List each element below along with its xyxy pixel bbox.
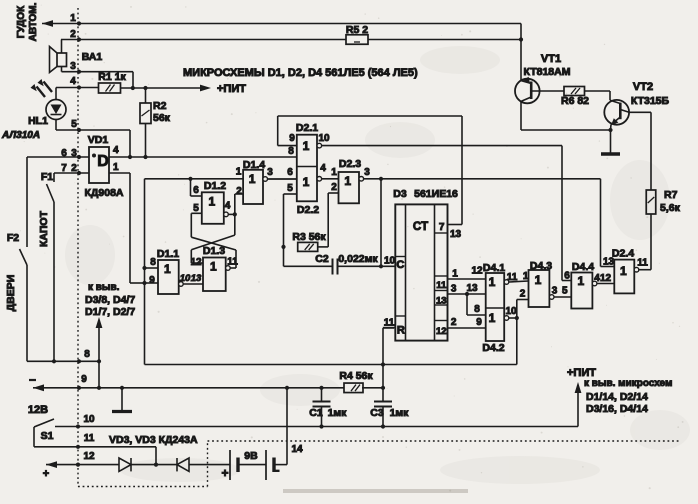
svg-text:4: 4 — [320, 163, 326, 174]
svg-text:561ИЕ16: 561ИЕ16 — [414, 188, 458, 200]
svg-text:R7: R7 — [664, 189, 678, 201]
svg-text:2: 2 — [70, 29, 76, 40]
svg-text:11: 11 — [384, 318, 395, 329]
svg-text:1: 1 — [164, 262, 171, 276]
svg-text:9В: 9В — [244, 450, 258, 462]
svg-text:9: 9 — [476, 317, 482, 328]
svg-text:3: 3 — [267, 167, 273, 178]
svg-text:ВА1: ВА1 — [82, 51, 103, 63]
svg-text:C3: C3 — [370, 407, 384, 419]
svg-text:D: D — [97, 153, 109, 170]
svg-text:+: + — [43, 468, 49, 480]
svg-text:ДВЕРИ: ДВЕРИ — [5, 275, 17, 312]
svg-text:3: 3 — [364, 167, 370, 178]
svg-text:10: 10 — [318, 133, 330, 144]
svg-text:3: 3 — [70, 61, 76, 72]
svg-text:HL1: HL1 — [28, 115, 48, 127]
svg-text:D1.4: D1.4 — [243, 159, 265, 171]
svg-text:8: 8 — [474, 304, 480, 315]
svg-text:12: 12 — [436, 326, 447, 337]
svg-text:D1.3: D1.3 — [203, 245, 225, 257]
svg-text:6: 6 — [287, 167, 293, 178]
svg-text:1: 1 — [210, 260, 217, 274]
svg-text:0,022мк: 0,022мк — [338, 253, 378, 265]
svg-text:+: + — [221, 466, 228, 480]
svg-text:1: 1 — [208, 194, 215, 208]
svg-text:1: 1 — [331, 167, 337, 178]
svg-text:10: 10 — [180, 273, 191, 284]
svg-text:1: 1 — [249, 172, 256, 186]
svg-text:VD3, VD3 КД243А: VD3, VD3 КД243А — [109, 434, 198, 446]
svg-text:1: 1 — [620, 264, 627, 278]
svg-text:МИКРОСХЕМЫ D1, D2, D4 561ЛЕ5 (: МИКРОСХЕМЫ D1, D2, D4 561ЛЕ5 (564 ЛЕ5) — [183, 67, 418, 79]
svg-text:2: 2 — [331, 182, 337, 193]
svg-text:VT2: VT2 — [633, 81, 653, 93]
svg-text:-: - — [276, 463, 280, 477]
svg-text:R4 56к: R4 56к — [339, 370, 373, 382]
svg-text:13: 13 — [603, 257, 615, 268]
svg-text:5: 5 — [287, 183, 293, 194]
svg-text:13: 13 — [450, 229, 462, 240]
svg-text:R3 56к: R3 56к — [292, 231, 326, 243]
svg-text:КТ818АМ: КТ818АМ — [524, 66, 571, 78]
svg-text:к выв.: к выв. — [88, 282, 120, 293]
svg-text:4: 4 — [225, 201, 231, 212]
svg-text:11: 11 — [637, 258, 648, 269]
svg-text:1: 1 — [236, 167, 242, 178]
svg-text:D3: D3 — [393, 188, 407, 200]
svg-text:7: 7 — [61, 163, 67, 174]
svg-text:CT: CT — [413, 221, 428, 233]
svg-text:7: 7 — [439, 222, 445, 233]
svg-text:3: 3 — [71, 148, 77, 159]
svg-text:D2.4: D2.4 — [612, 248, 634, 260]
svg-text:6: 6 — [193, 185, 199, 196]
svg-text:1: 1 — [523, 271, 529, 282]
svg-text:1: 1 — [303, 175, 310, 189]
svg-text:2: 2 — [451, 317, 457, 328]
svg-text:D1.2: D1.2 — [204, 180, 226, 192]
svg-text:R2: R2 — [153, 100, 167, 112]
svg-text:АЛ310А: АЛ310А — [1, 130, 40, 141]
svg-text:5: 5 — [562, 286, 568, 297]
svg-text:VT1: VT1 — [541, 53, 561, 65]
svg-text:D2.2: D2.2 — [297, 204, 319, 216]
svg-text:D4.4: D4.4 — [572, 261, 594, 273]
svg-text:6: 6 — [61, 148, 67, 159]
svg-text:D3/8, D4/7: D3/8, D4/7 — [85, 294, 135, 306]
svg-text:КТ315Б: КТ315Б — [631, 95, 670, 107]
svg-text:4: 4 — [113, 145, 119, 156]
svg-text:3: 3 — [451, 284, 457, 295]
svg-text:VD1: VD1 — [88, 134, 109, 146]
svg-text:F1: F1 — [41, 171, 53, 183]
svg-text:КАПОТ: КАПОТ — [38, 210, 50, 247]
svg-text:3: 3 — [552, 286, 558, 297]
svg-text:D1.1: D1.1 — [157, 248, 179, 260]
svg-text:13: 13 — [436, 296, 447, 307]
svg-text:R5 2: R5 2 — [346, 24, 368, 36]
svg-text:C: C — [396, 259, 404, 271]
svg-text:D4.2: D4.2 — [482, 342, 504, 354]
svg-text:13: 13 — [191, 273, 202, 284]
svg-text:11: 11 — [84, 433, 95, 444]
svg-text:12: 12 — [190, 257, 202, 268]
svg-text:1: 1 — [489, 275, 496, 289]
svg-text:8: 8 — [150, 257, 156, 268]
svg-text:12В: 12В — [28, 404, 48, 416]
svg-text:R: R — [397, 325, 405, 337]
svg-text:D1/14, D2/14: D1/14, D2/14 — [586, 391, 648, 403]
svg-text:D2.1: D2.1 — [296, 122, 318, 134]
svg-text:C1: C1 — [309, 407, 323, 419]
svg-text:2: 2 — [236, 186, 242, 197]
svg-text:1: 1 — [344, 174, 351, 188]
svg-text:9: 9 — [289, 133, 295, 144]
svg-text:+ПИТ: +ПИТ — [217, 83, 246, 95]
svg-text:D4.1: D4.1 — [483, 262, 505, 274]
svg-text:1: 1 — [70, 13, 76, 24]
svg-text:12: 12 — [600, 273, 612, 284]
svg-text:9: 9 — [149, 275, 155, 286]
svg-text:C2: C2 — [315, 253, 329, 265]
svg-text:5: 5 — [193, 203, 199, 214]
svg-text:1мк: 1мк — [328, 407, 348, 419]
svg-text:D2.3: D2.3 — [339, 158, 361, 170]
svg-text:10: 10 — [83, 414, 95, 425]
svg-text:1: 1 — [578, 274, 585, 288]
svg-text:11: 11 — [436, 280, 447, 291]
svg-text:1: 1 — [113, 162, 119, 173]
svg-text:1: 1 — [489, 311, 496, 325]
svg-text:2: 2 — [71, 163, 77, 174]
svg-text:1мк: 1мк — [390, 407, 410, 419]
svg-text:R1 1к: R1 1к — [98, 71, 126, 83]
svg-text:D4.3: D4.3 — [530, 260, 552, 272]
svg-text:5: 5 — [71, 119, 77, 130]
svg-text:ГУДОК: ГУДОК — [16, 5, 27, 38]
svg-text:к выв. микросхем: к выв. микросхем — [584, 378, 672, 389]
svg-text:10: 10 — [384, 256, 396, 267]
svg-text:1: 1 — [452, 269, 458, 280]
svg-text:8: 8 — [84, 349, 90, 360]
svg-text:1: 1 — [303, 139, 310, 153]
svg-text:13: 13 — [466, 283, 478, 294]
svg-text:1: 1 — [535, 273, 542, 287]
svg-text:F2: F2 — [7, 232, 19, 244]
svg-text:4: 4 — [70, 76, 76, 87]
svg-text:6: 6 — [564, 271, 570, 282]
svg-text:D1/7, D2/7: D1/7, D2/7 — [85, 306, 135, 318]
svg-text:12: 12 — [83, 451, 95, 462]
svg-text:10: 10 — [505, 306, 517, 317]
svg-text:56к: 56к — [153, 112, 171, 124]
svg-text:S1: S1 — [41, 430, 54, 442]
svg-text:D3/16, D4/14: D3/16, D4/14 — [586, 403, 648, 415]
svg-text:R6 82: R6 82 — [561, 95, 589, 107]
svg-text:8: 8 — [288, 146, 294, 157]
svg-text:12: 12 — [471, 266, 483, 277]
svg-text:5,6к: 5,6к — [660, 202, 681, 214]
svg-text:9: 9 — [81, 374, 87, 385]
svg-text:11: 11 — [507, 272, 518, 283]
svg-text:АВТОМ.: АВТОМ. — [28, 2, 39, 41]
svg-text:2: 2 — [520, 289, 526, 300]
svg-text:КД908А: КД908А — [85, 187, 124, 199]
svg-text:14: 14 — [291, 444, 303, 455]
